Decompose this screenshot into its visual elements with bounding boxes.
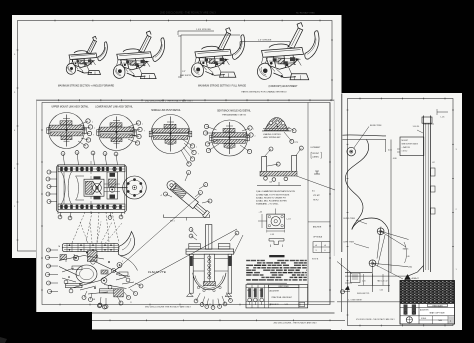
svg-text:(.84): (.84) — [408, 267, 412, 269]
svg-text:78 F.2: 78 F.2 — [313, 200, 319, 202]
svg-text:BLIND TRIM: BLIND TRIM — [344, 218, 356, 220]
svg-text:FRONT: FRONT — [313, 153, 320, 155]
svg-text:BLIND TRIM: BLIND TRIM — [370, 125, 382, 127]
svg-text:4TH DISCLOSURE - THE ROYALTY A: 4TH DISCLOSURE - THE ROYALTY ARE ONLY — [356, 318, 395, 321]
svg-text:7: 7 — [93, 135, 94, 137]
svg-text:TAB 1.20 .32: TAB 1.20 .32 — [377, 280, 387, 283]
svg-text:ADJUSTER: ADJUSTER — [270, 289, 280, 292]
svg-text:1.25: 1.25 — [380, 290, 384, 292]
svg-text:LOADING CONTROL: LOADING CONTROL — [263, 133, 281, 136]
svg-text:1.00 SL: 1.00 SL — [413, 126, 421, 128]
svg-text:NO ROYALTY RED: NO ROYALTY RED — [296, 11, 315, 14]
svg-text:A-MAJT: A-MAJT — [412, 277, 420, 280]
svg-text:1 X712: 1 X712 — [402, 151, 408, 153]
svg-text:L-1/4: L-1/4 — [270, 234, 274, 236]
svg-text:4B: 4B — [93, 299, 95, 301]
svg-text:LOWER MOUNT LINK ASSY DETAIL: LOWER MOUNT LINK ASSY DETAIL — [95, 106, 133, 109]
svg-text:3) BALL HOLES TO ORDER FIT: 3) BALL HOLES TO ORDER FIT — [256, 196, 287, 199]
svg-text:4 - 6 SEE SHEET: 4 - 6 SEE SHEET — [348, 300, 363, 302]
svg-text:+.03: +.03 — [259, 212, 263, 214]
svg-text:FLSL/M JT’E: FLSL/M JT’E — [148, 270, 167, 274]
svg-text:PER ASSEMBLY SET B: PER ASSEMBLY SET B — [222, 113, 246, 116]
svg-text:7: 7 — [196, 147, 197, 149]
svg-text:MA.05: MA.05 — [403, 248, 408, 251]
svg-text:1/2”: 1/2” — [182, 71, 186, 73]
svg-text:( AISE ): ( AISE ) — [313, 155, 320, 158]
svg-text:3: 3 — [316, 250, 317, 252]
svg-text:7: 7 — [142, 124, 143, 126]
svg-text:PARTS INTENDED FOR CHARACTER R: PARTS INTENDED FOR CHARACTER RESO — [241, 91, 286, 94]
svg-text:1-15: 1-15 — [285, 304, 289, 306]
svg-text:1.40: 1.40 — [406, 256, 410, 258]
svg-text:SEAT BACK ANGLE ADJ DETAIL: SEAT BACK ANGLE ADJ DETAIL — [217, 110, 251, 113]
svg-text:ANGLE IN: ANGLE IN — [270, 303, 279, 306]
svg-text:STANDARD + TO DRILL: STANDARD + TO DRILL — [256, 203, 279, 206]
svg-text:2ND DISCLOSURE + THE ROYALTY: 2ND DISCLOSURE + THE ROYALTY ARE ONLY — [145, 99, 193, 102]
svg-text:FIRST RIDER: FIRST RIDER — [433, 305, 444, 307]
svg-text:7: 7 — [92, 122, 93, 124]
svg-text:LT3 M7: LT3 M7 — [313, 195, 321, 197]
svg-text:MOUNT: MOUNT — [402, 140, 409, 142]
svg-text:9: 9 — [122, 261, 123, 263]
svg-text:2ND DISCLOSURE - THE ROYALTY: 2ND DISCLOSURE - THE ROYALTY ARE ONLY — [160, 10, 216, 14]
svg-text:L-1/4: L-1/4 — [287, 219, 291, 221]
svg-text:LEFT TRIM: LEFT TRIM — [344, 242, 355, 244]
svg-text:MAX SUPPL: MAX SUPPL — [180, 74, 192, 77]
svg-text:1.5 R STROKE: 1.5 R STROKE — [196, 29, 211, 31]
svg-text:SIGN LEFT PL: SIGN LEFT PL — [357, 293, 370, 295]
svg-text:SEAT / LEFT SIDE: SEAT / LEFT SIDE — [429, 312, 445, 315]
svg-text:1) ALL DIAMETER REGISTRATION N: 1) ALL DIAMETER REGISTRATION NOTE — [256, 190, 296, 193]
svg-text:FIRST RIDER: FIRST RIDER — [279, 286, 290, 288]
svg-text:MAXIMUM STROKE SECTION + ANGLE: MAXIMUM STROKE SECTION + ANGLED FORWARD — [58, 85, 115, 88]
svg-text:ULTIMENT: ULTIMENT — [311, 147, 322, 149]
svg-text:7: 7 — [253, 129, 254, 131]
svg-text:MIDDLE LINK PUSH DETAIL: MIDDLE LINK PUSH DETAIL — [151, 109, 181, 112]
svg-text:1.20: 1.20 — [362, 281, 366, 283]
svg-text:PRACTICAL USE RIGHT: PRACTICAL USE RIGHT — [272, 296, 293, 299]
svg-text:7: 7 — [144, 131, 145, 133]
svg-text:W SY B: W SY B — [312, 259, 319, 261]
svg-text:SET 2: SET 2 — [170, 221, 175, 223]
svg-text:6: 6 — [325, 250, 326, 252]
svg-text:7: 7 — [94, 128, 95, 130]
svg-text:.62: .62 — [432, 162, 435, 164]
svg-text:(COMFORT) ADJUSTMENT: (COMFORT) ADJUSTMENT — [268, 85, 298, 88]
svg-text:3RD DISCLOSURE THE ROYALTY A: 3RD DISCLOSURE THE ROYALTY ARE ONLY — [145, 305, 192, 308]
svg-text:MAXIMUM STROKE SETTING / FULL: MAXIMUM STROKE SETTING / FULL RANGE — [198, 85, 246, 88]
svg-text:UPPER MOUNT LINK ASSY DETAIL: UPPER MOUNT LINK ASSY DETAIL — [51, 106, 89, 109]
svg-text:OPTION A: OPTION A — [313, 236, 323, 239]
svg-text:2.5” STROKE: 2.5” STROKE — [258, 39, 272, 41]
svg-text:4) BALL MILL FLUSHING IS PER: 4) BALL MILL FLUSHING IS PER — [256, 200, 287, 203]
svg-text:11: 11 — [130, 302, 132, 304]
svg-text:SEE NORTH INDEX: SEE NORTH INDEX — [402, 143, 419, 145]
svg-text:2ND DISCLOSURE - THE ROYALTY A: 2ND DISCLOSURE - THE ROYALTY ARE ONLY — [274, 322, 318, 325]
svg-text:7: 7 — [255, 136, 256, 138]
svg-text:+2: +2 — [160, 195, 162, 197]
svg-text:ASSY SPRING SET: ASSY SPRING SET — [264, 136, 282, 139]
svg-text:2) SEAT RAIL TO FIT BOTH HOLES: 2) SEAT RAIL TO FIT BOTH HOLES — [256, 193, 290, 196]
svg-text:ANCHOR: ANCHOR — [313, 226, 322, 229]
svg-text:+ WAY RD: + WAY RD — [402, 146, 411, 149]
svg-text:7: 7 — [198, 154, 199, 156]
